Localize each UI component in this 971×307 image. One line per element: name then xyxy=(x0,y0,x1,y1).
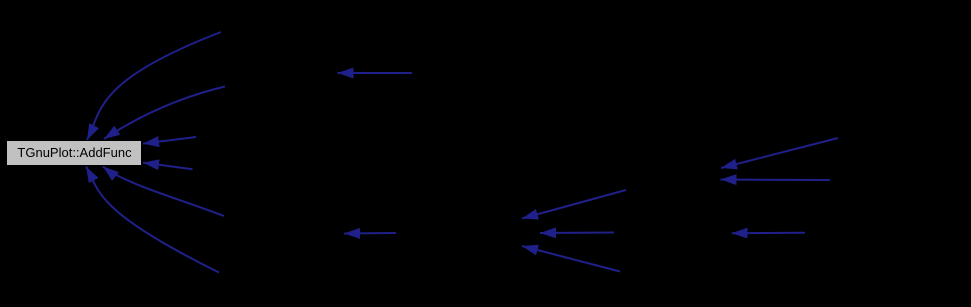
svg-text:TGnuPlot::AddFunc: TGnuPlot::AddFunc xyxy=(17,145,132,160)
